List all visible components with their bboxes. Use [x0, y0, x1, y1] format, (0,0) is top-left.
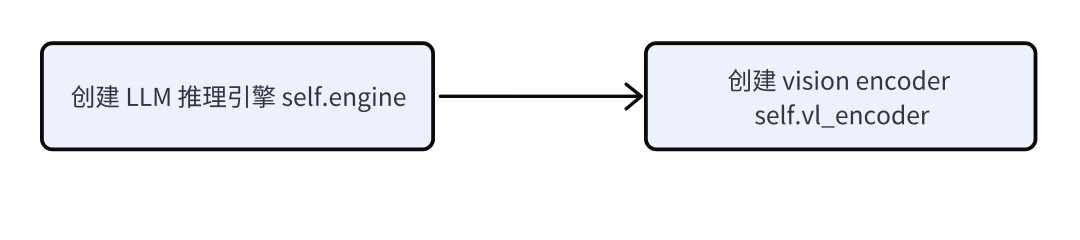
wire: arrow shaft from left box to right box [441, 95, 640, 98]
node: 创建 LLM 推理引擎 self.engine (box) [42, 43, 433, 149]
node: 创建 vision encoder self.vl_encoder (box) [646, 43, 1036, 149]
arrowhead chevron [626, 84, 641, 109]
node label: 创建 LLM 推理引擎 self.engine [71, 85, 405, 112]
node label line 1: 创建 vision encoder [728, 69, 950, 92]
node label line 2: self.vl_encoder [755, 104, 929, 127]
